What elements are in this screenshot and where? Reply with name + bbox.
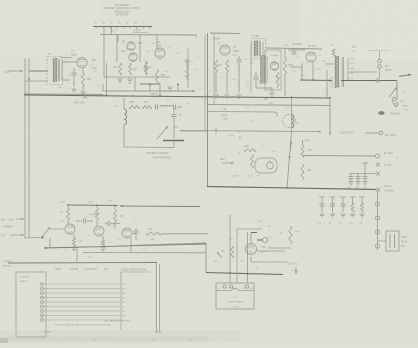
svg-text:CABLE: CABLE [20,280,28,283]
wire from strip down right [111,27,113,35]
label R22 [307,150,312,152]
transformer T2 core [259,41,260,56]
footer marks [92,340,193,342]
cap row stub up [362,163,368,174]
wire y234 to x207 [162,233,208,235]
wire to battery box [378,240,387,242]
label V2 [122,40,143,45]
junction x289 [286,156,290,189]
terminal O y246 [376,244,380,248]
transformer T2B winding [261,55,265,84]
wire box bottom y77 [104,76,170,78]
labels trimmer row [318,223,364,225]
table header [2,260,108,271]
label rect cluster [230,176,271,229]
label V1 type [71,50,77,57]
speech lower bus [83,252,206,254]
resistor R25 [350,197,356,217]
svg-text:1M: 1M [94,71,97,73]
table box [16,272,46,337]
ground R1 [80,92,85,95]
label ptt [1,235,6,238]
ground detector [269,93,274,96]
bypass capacitor C21 [356,174,361,182]
wire det col [256,86,278,92]
svg-text:6.3 V AC: 6.3 V AC [288,263,298,266]
svg-text:120K: 120K [60,221,65,223]
resistor R6 [144,62,147,75]
tube V9 [122,228,132,238]
arrow ext spkr [399,74,411,77]
label gnd bus [384,185,395,193]
terminal O y232 [376,230,380,234]
labels cap row [347,187,368,189]
transformer T2B core [266,56,267,83]
bus y131 arrowed [180,130,321,133]
svg-text:GND A-: GND A- [384,185,392,188]
terminal gnd bus [376,188,380,192]
vertical x131 link [88,238,131,259]
capacitor C12 [254,72,259,88]
label REC [220,158,225,161]
tick IF x150 [149,84,151,91]
vertical x206 down [205,243,207,273]
svg-text:VOLUME CONTROL: VOLUME CONTROL [146,152,169,155]
svg-text:10 METER: 10 METER [116,14,128,17]
title text block [105,4,140,17]
bus wire y48 right [266,48,322,49]
terminal P1 lower [349,65,381,78]
svg-text:V5 6AV6: V5 6AV6 [270,54,279,57]
power box terminal 3 [245,285,248,288]
terminal cap row [376,172,380,176]
svg-text:250: 250 [264,98,269,101]
cable label underlined [120,269,151,331]
mic wire into V7 [50,228,65,230]
wire into T3 left [325,63,334,65]
label R13 [288,65,294,67]
svg-text:1 - 4: 1 - 4 [233,297,238,299]
diode CR1 [251,233,268,243]
wire y67 stub [290,66,302,68]
wire V6 to T3 [300,79,332,82]
vertical through L2 [291,96,293,131]
terminal B+ right [376,154,380,158]
resistor R12 [276,72,279,86]
svg-text:CHASSIS: CHASSIS [384,190,395,193]
wire V9 out [133,233,136,235]
trimmer C25 [319,197,325,217]
wire x157 [157,35,188,88]
ground mid [167,87,172,90]
ground V4 c [236,95,241,98]
junction heater bus [229,272,248,274]
junction dot V6 [312,79,314,81]
svg-text:FUNCTION: FUNCTION [85,269,97,271]
transformer T3 top squiggle [332,49,337,58]
table box text [19,277,30,283]
dark pad [378,111,384,115]
power box [216,283,254,309]
svg-text:PTT: PTT [1,235,6,238]
wire y33 tick [195,35,197,38]
variable mark on AVC [83,95,87,99]
jack J1 ring contact [395,103,398,106]
jack J1 lever [389,87,397,97]
label V4 top [213,39,221,41]
svg-text:V10: V10 [261,246,266,249]
resistor R22 [301,145,304,158]
tube V1 [77,58,87,68]
plate resistor R32 [113,206,116,223]
label audio out [308,45,317,48]
resistor R26 [359,197,365,217]
terminal strip bus wire [93,27,152,30]
table wire labels [122,284,126,322]
tube V2a [127,42,135,50]
wire T1 bottom to gnd net [63,79,71,81]
resistor R21 [250,155,253,168]
power box terminal 1 [223,285,226,288]
wire AVC left [24,92,103,95]
capacitor C10 [237,56,242,62]
wire y248 stub [268,247,291,249]
row resistor R16 [142,105,152,108]
ground C21 [355,182,360,185]
transformer T2 shield box [252,39,266,59]
label V9 [120,216,124,218]
svg-text:RD: RD [351,63,355,65]
svg-text:47 25: 47 25 [228,135,234,137]
cable vertical 2 [155,264,162,332]
resistor R1 [81,68,84,91]
wire box left edge [103,35,105,78]
B+ bus y105 [208,105,331,106]
transformer T3 core [342,57,343,87]
wire screen x327 [326,70,328,97]
label volume control [146,152,172,160]
battery plug box [386,231,399,251]
svg-text:68K: 68K [161,75,166,77]
power box divider [216,289,254,291]
label C18 [179,115,182,117]
tube V10 rectifier [246,244,257,255]
label spkr fld [340,132,354,135]
vertical x237 to box [236,229,238,283]
label 250 on B line [264,98,273,105]
IF can T2B box [265,50,281,90]
power box text [227,297,244,309]
wire y50 to V6 [288,49,305,51]
svg-text:PWR: PWR [401,237,407,239]
wire V6 plate [312,63,314,81]
svg-text:NOTE: ALL RESISTORS 1/2 WATT U: NOTE: ALL RESISTORS 1/2 WATT UNLESS SPEC… [55,324,111,327]
B wire y155 to terminal [303,155,376,158]
label T2 [252,36,260,38]
svg-text:1K: 1K [149,67,152,69]
label T1 [48,53,51,56]
wire AVC turn down [329,98,332,135]
wire antenna to T1 top [29,70,48,72]
tube V5 detector [270,62,278,70]
resistor R4 [128,63,131,75]
tube V6 [306,52,316,62]
svg-text:POWER CABLE: POWER CABLE [227,301,244,304]
label R20 [244,146,250,148]
label R3R4 [113,67,138,71]
svg-text:6BE6: 6BE6 [233,50,240,53]
svg-text:ON-OFF SWITCH: ON-OFF SWITCH [152,157,172,160]
switch S1 lever [42,227,50,237]
svg-text:2.2K: 2.2K [120,43,125,45]
B+ line y111 [208,112,278,117]
capacitor C2 [72,68,77,87]
svg-text:COLOR: COLOR [70,269,79,271]
capacitor C18 [172,108,177,121]
coupling capacitor C30 [76,219,93,224]
jack contact marks [392,101,396,107]
svg-text:MIC: MIC [1,219,6,222]
vertical bus x214 [213,33,215,105]
svg-text:CONTROL: CONTROL [19,277,30,279]
row component end [174,105,183,110]
svg-text:PHONES: PHONES [390,113,401,116]
wire vol bottom [124,142,174,148]
label V4 [233,46,240,53]
svg-text:2.7K: 2.7K [107,242,112,244]
label R36 [147,229,155,242]
wire V2 col b [139,35,141,62]
svg-text:B+ 250V: B+ 250V [384,152,394,155]
svg-text:AVC: AVC [92,67,97,70]
vertical x251 [250,42,252,92]
label V5 [270,54,279,57]
row coil L3 [160,105,173,107]
terminal O y204 [376,202,380,206]
label phones [390,113,401,116]
wire y84 mid [140,84,160,96]
transformer T2 winding [254,41,258,57]
power box terminal 2 [229,285,232,288]
ground V7 [71,248,76,251]
wire jack down [396,81,398,101]
ground V8 [100,248,105,251]
jack J1 tip contact [392,97,396,101]
label B+ stub [221,115,228,121]
label under IF bus [150,93,158,96]
svg-text:SPKR: SPKR [385,70,392,72]
tick IF x135 [134,77,136,91]
arrow key line [217,252,222,258]
svg-text:120K: 120K [232,55,237,57]
svg-text:22K: 22K [218,65,223,67]
speech bus top [68,204,118,207]
svg-text:47K: 47K [108,201,112,203]
svg-text:A SPKR FLD: A SPKR FLD [340,132,354,135]
ground V4 a [213,95,218,98]
ground V2 [117,79,132,82]
tick IF x103 [102,84,104,91]
volume pot R17 body [163,140,184,142]
wire x302 up [302,140,304,145]
ground C2 [71,89,76,92]
svg-text:AF OUT: AF OUT [308,45,317,48]
label B+ mid [239,137,243,140]
label V7 [60,212,64,214]
bypass capacitor C22 [363,174,368,182]
resistor R36 [146,232,162,235]
ground C20 [348,182,353,185]
label mic input [1,219,14,222]
svg-text:OUT: OUT [404,110,409,112]
elbow to heater bus [206,273,283,275]
svg-text:1 PLUG: 1 PLUG [231,307,239,309]
svg-text:100K: 100K [147,229,153,231]
IF bus wire y91 [103,90,195,93]
junction dots bus y84 [149,84,179,86]
wire V10 right [257,250,285,252]
terminal X y164 [376,163,380,167]
wire V4 col3 [238,63,240,93]
resistor R10 [225,60,228,72]
svg-text:KEY: KEY [214,261,219,263]
label above y111 [222,108,227,111]
bypass capacitor C20 [349,174,354,182]
coupling capacitor C31 [105,221,120,226]
wire V1 screen vertical [106,63,108,96]
svg-text:WH: WH [122,298,126,300]
svg-text:REC: REC [220,158,225,161]
label heater [292,270,298,272]
label ANT [5,70,11,74]
label V10 [261,246,266,254]
capacitor C8 [185,60,190,80]
transformer T3 pin ticks [331,78,334,87]
svg-text:25-25: 25-25 [247,176,253,178]
label under bus y32 [112,31,148,33]
svg-text:100K: 100K [129,102,135,104]
label jack right [400,101,409,112]
label T3 [330,45,333,47]
wire switch down [50,238,77,263]
transformer T1 shield box [47,57,63,85]
wire V4 col1 [215,72,217,93]
svg-text:WIRE: WIRE [55,269,61,271]
wire x285 [284,49,286,96]
cathode resistor R33 [72,234,75,246]
svg-text:1M: 1M [194,69,197,71]
svg-text:455 KC: 455 KC [150,93,158,96]
label ext speaker [385,135,397,137]
svg-text:OSC: OSC [121,51,126,53]
AVC bus wire [24,95,330,98]
resistor R23 [301,164,304,180]
svg-text:EXT SPKR: EXT SPKR [385,135,397,137]
capacitor C15 on speaker line [370,78,379,83]
svg-text:V6 6AQ5: V6 6AQ5 [292,43,302,46]
wire V2 col a [116,35,118,62]
svg-text:120K: 120K [268,237,273,239]
ground C22 [362,182,367,185]
shielded line left vertical 2 [28,58,30,238]
resistor R9 [214,60,217,72]
wire V4 col2 [226,72,228,93]
label L2 [296,123,299,125]
label R15 [129,102,149,104]
volume pot R17 arrow [157,126,168,139]
choke L2 [283,115,296,128]
resistor R3 [118,63,121,75]
svg-text:GN: GN [351,68,355,70]
arrow REC [222,162,234,165]
transformer T3 primary winding [335,56,339,88]
svg-text:C IN MFD: C IN MFD [42,332,52,334]
svg-text:HA 4: HA 4 [305,139,311,142]
capacitor C5 [144,62,149,74]
svg-text:47K: 47K [113,67,118,69]
svg-text:47K: 47K [144,102,149,104]
svg-text:HI-Z: HI-Z [9,220,14,222]
plate resistor R30 [66,205,69,220]
svg-text:45 42: 45 42 [221,115,227,117]
svg-text:A+ 12V: A+ 12V [384,164,392,167]
svg-text:2.2K: 2.2K [307,150,312,152]
svg-text:270K: 270K [60,202,66,204]
svg-text:CARBON: CARBON [3,226,13,229]
vertical bus x207 [207,33,209,187]
transformer T1 winding [53,58,57,82]
vertical bus x205 [204,35,206,131]
svg-text:270K: 270K [88,202,94,204]
label under y131 [228,135,311,142]
svg-text:7 M: 7 M [224,119,228,121]
label R9 [218,65,223,67]
svg-text:ALL CAPACITORS IN MFD: ALL CAPACITORS IN MFD [105,320,131,323]
vertical x227 to box [229,215,231,283]
svg-text:CHASSIS: CHASSIS [2,265,12,268]
ground bus wire [207,187,376,190]
battery plug pins [390,234,395,248]
svg-text:ANT: ANT [5,70,11,74]
wire V10 bottom [251,257,288,262]
label R30 [60,201,112,204]
svg-text:120K: 120K [250,121,255,123]
label mic 2 [3,226,13,229]
transformer pin labels [351,58,355,80]
label V6 [292,43,302,46]
svg-text:T2 455: T2 455 [252,36,260,38]
shielded line left vertical 1 [24,58,26,238]
label key [214,261,219,263]
arrow heater down [295,267,298,274]
vertical wire x289 [287,131,292,188]
tube V8 [94,226,104,236]
svg-text:2.7K: 2.7K [78,241,83,243]
tube V7 [65,224,75,234]
filter loop [255,158,277,173]
row capacitor C17 [156,105,158,110]
note text 2 [42,332,52,334]
label V1 pins [92,60,97,70]
coil L1 [124,109,127,125]
svg-text:CABLE CONNECTIONS: CABLE CONNECTIONS [121,269,147,272]
wire V6 cathode [301,63,303,80]
svg-text:10K: 10K [133,69,138,71]
tube V3 [155,48,165,58]
antenna lead-in arrow [8,70,23,73]
svg-text:6BZ6: 6BZ6 [71,54,77,57]
svg-text:120K: 120K [316,69,321,71]
